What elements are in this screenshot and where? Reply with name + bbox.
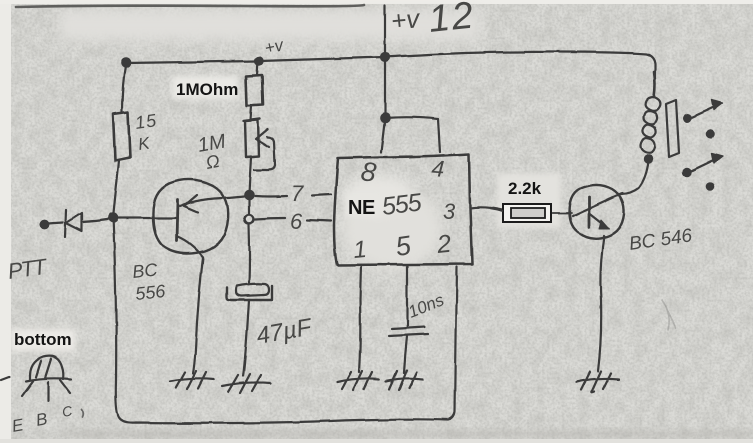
- TO92 sketch dome: [26, 356, 71, 381]
- top scan edge line: [16, 5, 364, 7]
- TO92 legs: [22, 380, 70, 401]
- inductor L1 coil: [641, 97, 661, 153]
- wire left rail mid: [113, 161, 119, 218]
- svg-text:555: 555: [380, 188, 423, 221]
- svg-text:NE: NE: [348, 197, 375, 219]
- wire +V rail: [126, 52, 655, 79]
- svg-text:2: 2: [435, 230, 453, 259]
- wire Q1 collector to ground: [193, 257, 203, 373]
- node PTT junction: [109, 214, 117, 222]
- transistor Q1 base wire: [113, 217, 176, 219]
- capacitor C1 47uF bracket: [227, 286, 272, 300]
- wire pin5 stub: [406, 265, 408, 326]
- light patch 555 interior: [342, 186, 442, 270]
- svg-text:1MOhm: 1MOhm: [176, 80, 238, 99]
- node 555 top junction: [381, 114, 389, 122]
- wire pot to node7: [249, 157, 251, 193]
- node +V 555 junction: [381, 53, 389, 61]
- IC U1 NE555 box: [334, 154, 472, 265]
- resistor R2 1MOhm: [246, 75, 263, 106]
- node pin7 junction: [245, 191, 253, 199]
- svg-text:bottom: bottom: [14, 330, 72, 349]
- resistor R1 15K: [113, 112, 130, 161]
- svg-text:556: 556: [134, 281, 167, 304]
- ground G4: [386, 370, 423, 390]
- wire diode to junction: [82, 219, 110, 222]
- potentiometer P1 wiper arrow: [254, 129, 275, 170]
- wire pin4 jog: [385, 117, 440, 152]
- svg-text:3: 3: [443, 199, 456, 224]
- svg-text:+v: +v: [389, 3, 422, 36]
- wire 10nF to ground: [404, 336, 407, 373]
- capacitor C1 47uF plate: [236, 284, 269, 296]
- transistor Q2 base bar: [588, 197, 591, 227]
- transistor Q2 emitter line: [589, 213, 603, 224]
- light patch 2.2k area: [497, 173, 561, 228]
- wire pin6 right dash: [307, 220, 331, 221]
- svg-text:7: 7: [291, 181, 304, 206]
- wire pin7 right dash: [312, 194, 331, 195]
- scan white left edge: [0, 0, 11, 443]
- capacitor C2 10nF bottom plate: [389, 334, 428, 336]
- wire pin3 to resistor: [490, 208, 503, 211]
- resistor R3 2.2k symbol: [503, 204, 551, 222]
- wire node6 to cap: [248, 224, 251, 283]
- transistor Q2 collector diagonal: [572, 193, 622, 216]
- ground G5: [576, 371, 619, 393]
- speaker dot 2: [707, 184, 713, 190]
- wire left rail upper: [122, 63, 126, 112]
- transistor Q2 BC546 circle: [569, 185, 624, 239]
- wire left rail lower + bottom border: [113, 218, 457, 423]
- wire Q1 emitter to rail: [228, 196, 248, 198]
- transistor Q1 emitter arrow: [184, 195, 198, 212]
- speaker dot 1: [707, 131, 713, 137]
- wire 1M resistor top stub: [257, 61, 258, 75]
- bottom scan shadow: [60, 430, 753, 438]
- svg-text:15: 15: [134, 110, 159, 133]
- wire coil to Q2 collector: [621, 161, 648, 194]
- transistor Q2 emitter arrow: [599, 220, 609, 229]
- wire pin7 left dash: [255, 195, 287, 198]
- speaker arrow 2: [689, 159, 716, 172]
- ground G2: [222, 374, 271, 393]
- svg-text:6: 6: [290, 209, 303, 234]
- wire PTT to diode: [47, 222, 63, 223]
- scan white top edge: [0, 0, 753, 4]
- light patch 1MOhm label: [172, 76, 238, 99]
- wire +V rail overdraw: [654, 72, 655, 97]
- capacitor C2 10nF top plate: [392, 327, 424, 329]
- light patch NE label: [345, 193, 380, 217]
- potentiometer P1 body: [244, 119, 260, 157]
- wire 1M to pot: [251, 106, 252, 120]
- wire Q2 emitter to ground: [598, 236, 604, 371]
- wire 555 rail stem: [384, 57, 386, 118]
- wire cap to ground: [243, 300, 249, 376]
- transistor Q1 BC556 circle: [153, 180, 228, 254]
- svg-text:1: 1: [352, 236, 368, 264]
- stray mark left edge: [1, 377, 9, 380]
- ground G1: [170, 371, 214, 389]
- transistor Q1 base bar: [177, 200, 178, 241]
- wire +V stem to top: [384, 6, 386, 57]
- svg-text:2.2k: 2.2k: [508, 179, 542, 198]
- ground G3: [337, 371, 379, 390]
- diode D1: [65, 210, 82, 237]
- wire pin6 left dash: [255, 218, 285, 219]
- node pin6 junction open: [245, 215, 254, 224]
- wire rail between nodes: [248, 199, 250, 214]
- svg-text:12: 12: [427, 0, 477, 41]
- node coil bottom: [644, 155, 651, 162]
- node +V left junction: [122, 59, 130, 67]
- transistor Q1 collector line: [178, 237, 203, 257]
- light patch top band: [60, 10, 480, 40]
- faint pencil mark right: [662, 300, 676, 330]
- wire pin8 stub: [381, 118, 385, 152]
- light patch bottom label: [11, 329, 75, 351]
- resistor R3 2.2k wire right: [552, 212, 571, 214]
- wire pin3: [470, 207, 502, 210]
- speaker arrow 1: [690, 106, 716, 118]
- svg-text:BC: BC: [131, 259, 159, 282]
- node +V 1M junction: [255, 57, 262, 64]
- terminal PTT input: [40, 220, 48, 228]
- svg-text:4: 4: [431, 155, 446, 182]
- transformer core bar: [666, 100, 679, 157]
- wire pin1 to ground: [359, 265, 361, 372]
- transistor Q1 emitter line: [180, 198, 228, 206]
- stray tick lower left: [81, 409, 83, 417]
